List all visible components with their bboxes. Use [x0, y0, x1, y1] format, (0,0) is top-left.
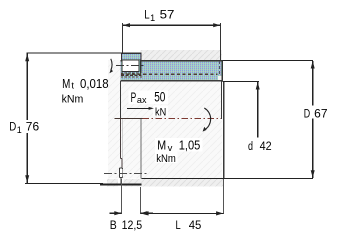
bar white step bottom-right: [218, 76, 222, 80]
bar bottom edge: [120, 80, 222, 81]
bar top edge: [120, 60, 222, 61]
pin lower stem: [120, 178, 122, 185]
svg-text:1: 1: [17, 125, 22, 135]
svg-text:12,5: 12,5: [122, 218, 143, 232]
svg-text:t: t: [71, 81, 74, 92]
white gap of stud through plate block: [118, 179, 123, 187]
svg-text:M: M: [157, 137, 166, 152]
svg-text:B: B: [110, 218, 117, 232]
d up arrowhead: [256, 82, 260, 90]
D vertical lower segment: [312, 119, 314, 178]
label D1 76 white box: [8, 120, 42, 134]
D down arrowhead: [311, 170, 315, 178]
B extension line left below plate: [121, 179, 123, 214]
kNm white box: [155, 152, 178, 163]
hidden stud line right thin: [122, 119, 124, 159]
L1 right extension: [220, 23, 222, 61]
M_t torque arc: [111, 59, 112, 70]
extra rough thread texture under stud: [121, 72, 142, 74]
L1 dimension: left extension: [122, 23, 124, 54]
L1 right arrowhead: [213, 23, 220, 27]
M_v arc arrowhead: [203, 127, 207, 132]
kN white box: [153, 105, 168, 116]
D vertical upper segment: [312, 61, 314, 106]
M_v torque arc: [204, 108, 210, 130]
svg-text:D: D: [304, 108, 310, 120]
P_ax white box: [129, 90, 168, 104]
lower pin centerline: [104, 173, 147, 175]
B dimension line right part: [140, 212, 153, 214]
svg-text:d: d: [248, 141, 253, 153]
left ground line (D1): [25, 183, 103, 184]
nut bottom thick line: [100, 184, 141, 186]
stud cap (blue): [121, 53, 140, 60]
svg-text:50: 50: [154, 90, 165, 105]
svg-text:M: M: [62, 76, 70, 91]
bar hidden dashed vertical near right end: [219, 61, 221, 76]
svg-text:76: 76: [26, 119, 40, 133]
stud white box: [122, 60, 139, 72]
svg-text:kN: kN: [155, 107, 166, 119]
svg-text:67: 67: [314, 108, 327, 120]
D1 down arrowhead: [25, 175, 29, 183]
d vertical: [257, 82, 259, 138]
L1 left arrowhead: [123, 23, 130, 27]
body left edge: [120, 81, 121, 119]
D1 up arrowhead: [25, 54, 29, 62]
D1 dimension: top line: [27, 52, 123, 54]
svg-text:P: P: [131, 90, 137, 105]
svg-text:1: 1: [150, 13, 155, 23]
rubber bar (blue): [120, 60, 222, 81]
svg-text:1,05: 1,05: [179, 137, 201, 152]
d dimension: line B: [223, 80, 259, 82]
D dimension: top line A: [223, 60, 314, 62]
B extension inner line through body: [140, 119, 142, 179]
L extension line right: [222, 179, 224, 214]
body bottom solid segment: [115, 118, 143, 119]
plate hatched block below baseline: [107, 179, 223, 187]
hidden stud line left (dashed dark red): [120, 119, 122, 159]
baseline (ground line right): [141, 178, 313, 179]
svg-text:L: L: [144, 8, 150, 22]
svg-text:ax: ax: [137, 95, 147, 106]
svg-text:42: 42: [260, 141, 272, 153]
bar right edge: [221, 60, 222, 81]
svg-text:45: 45: [189, 218, 202, 232]
stud right outer edge: [140, 60, 141, 73]
plate hole right edge: [223, 81, 224, 178]
B dimension line left part: [110, 212, 122, 214]
svg-text:0,018: 0,018: [80, 76, 109, 91]
body mid centerline (dash-dot dark red): [142, 118, 221, 120]
stud lower step: [121, 159, 122, 169]
D1 vertical upper segment: [26, 53, 28, 120]
M_v white box: [155, 138, 203, 152]
svg-text:L: L: [176, 218, 181, 232]
B extension line right below plate: [139, 187, 141, 214]
plate main hatched area: [108, 60, 222, 179]
svg-text:kNm: kNm: [62, 94, 84, 106]
plate hatched strip above bar: [140, 50, 222, 60]
svg-text:D: D: [9, 119, 16, 133]
body right edge: [221, 81, 222, 119]
stud centerline: [116, 65, 144, 67]
L dimension line: [141, 212, 223, 214]
P_ax arrow: [127, 107, 150, 109]
bottom pin: [119, 168, 122, 177]
svg-text:57: 57: [160, 8, 175, 22]
bar dashed interface line: [121, 73, 218, 75]
svg-text:kNm: kNm: [156, 153, 176, 165]
M_t arc arrowhead: [110, 69, 114, 74]
D up arrowhead: [311, 61, 315, 69]
L1 dimension line: [123, 24, 221, 26]
D1 vertical lower segment: [26, 133, 28, 183]
stud right blue strip: [139, 60, 141, 73]
